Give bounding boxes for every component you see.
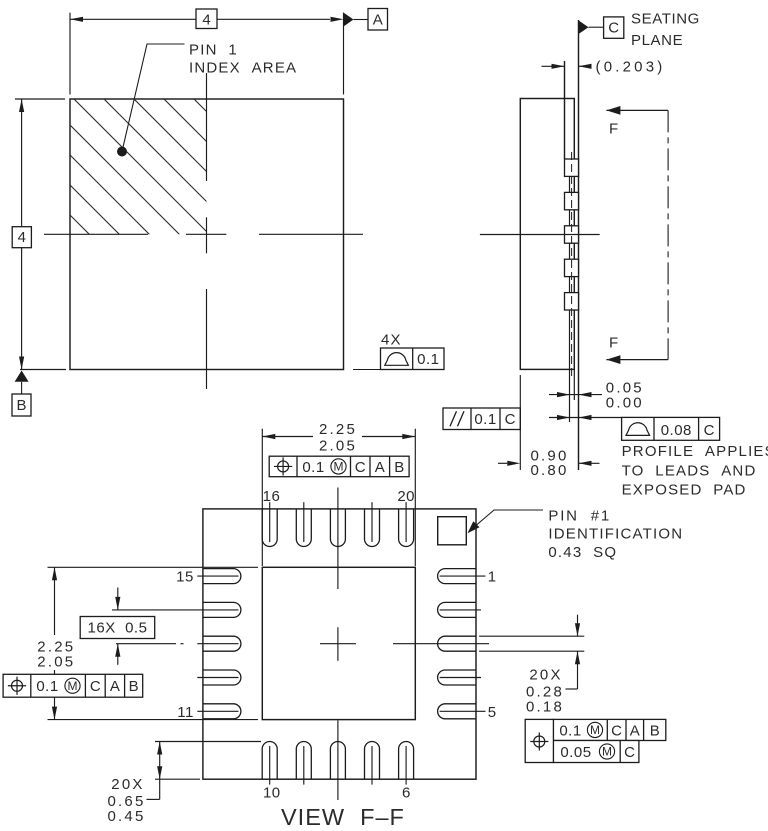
svg-text:C: C [608, 20, 619, 37]
svg-text:B: B [129, 678, 139, 695]
svg-text:20X: 20X [529, 666, 562, 683]
profile leader line [549, 417, 579, 419]
bottom view vertical centerline [337, 488, 339, 590]
side view lead centerline dashed [571, 152, 573, 376]
bottom row lead centerlines [269, 746, 271, 785]
svg-text:A: A [375, 459, 385, 476]
svg-text:PLANE: PLANE [631, 32, 683, 49]
svg-text:INDEX AREA: INDEX AREA [189, 60, 297, 77]
svg-text:0.43 SQ: 0.43 SQ [548, 544, 617, 561]
bottom row leads 6-10 [262, 742, 277, 780]
svg-text:0.80: 0.80 [531, 462, 569, 479]
datum C flag [579, 20, 589, 34]
svg-text:20: 20 [397, 488, 415, 505]
dimension 2.25/2.05 top line [262, 436, 313, 438]
svg-text:16: 16 [263, 488, 281, 505]
svg-text:VIEW F–F: VIEW F–F [281, 804, 405, 830]
svg-text:2.05: 2.05 [319, 438, 357, 455]
4X profile callout [353, 369, 381, 371]
svg-text:16X 0.5: 16X 0.5 [88, 619, 148, 636]
top row lead centerlines [269, 502, 271, 542]
top view horizontal centerline [44, 233, 148, 235]
svg-text:4: 4 [202, 11, 210, 28]
dimension 16X 0.5 box [80, 617, 155, 639]
side view lead face line left [564, 61, 566, 159]
svg-text:0.45: 0.45 [108, 808, 146, 825]
svg-text:C: C [611, 722, 622, 739]
svg-text:2.25: 2.25 [319, 421, 357, 438]
bottom view outer outline [203, 509, 476, 779]
svg-text:IDENTIFICATION: IDENTIFICATION [548, 526, 683, 543]
side view leads [565, 159, 579, 176]
svg-text:M: M [68, 679, 78, 693]
side view body edge below [573, 369, 575, 400]
svg-text:0.1: 0.1 [474, 411, 496, 428]
svg-text:B: B [650, 722, 660, 739]
svg-text:C: C [624, 744, 635, 761]
svg-text:M: M [334, 460, 344, 474]
svg-text:15: 15 [176, 569, 194, 586]
svg-text:B: B [16, 397, 26, 414]
bottom view exposed pad [262, 567, 415, 719]
dimension 16X 0.5 arrows [117, 588, 119, 610]
svg-text:C: C [505, 411, 516, 428]
svg-text:C: C [355, 459, 366, 476]
svg-text:0.1: 0.1 [559, 722, 581, 739]
position frame left [3, 674, 143, 697]
right column lead centerlines [440, 575, 486, 577]
svg-text:6: 6 [402, 785, 411, 802]
svg-text:10: 10 [263, 785, 281, 802]
section line F-F [667, 110, 669, 359]
svg-text:0.08: 0.08 [661, 422, 692, 439]
side view inner lead line [569, 176, 571, 422]
dimension 20X 0.65/0.45 extension lines [155, 741, 261, 743]
side view body [520, 99, 574, 370]
svg-text:(0.203): (0.203) [596, 59, 666, 76]
side view seating plane line [578, 20, 580, 470]
svg-text:4: 4 [18, 229, 26, 246]
dimension 4 vertical line [21, 99, 23, 226]
svg-text:20X: 20X [111, 776, 144, 793]
svg-text:0.05: 0.05 [560, 744, 591, 761]
composite position frame bottom right [553, 719, 665, 740]
svg-text:F: F [609, 335, 619, 352]
pin 1 leader [122, 44, 185, 152]
svg-text:SEATING: SEATING [631, 11, 700, 28]
profile frame 0.08 C [622, 417, 720, 440]
svg-text:4X: 4X [381, 332, 402, 349]
svg-text:5: 5 [488, 704, 497, 721]
svg-text:0.1: 0.1 [417, 351, 439, 368]
top row leads 16-20 [262, 509, 277, 547]
pin 1 identification leader [470, 510, 544, 531]
svg-text:0.00: 0.00 [606, 395, 644, 412]
svg-text:0.1: 0.1 [36, 678, 58, 695]
dimension 20X 0.65/0.45 leader [159, 779, 161, 799]
svg-text:PIN 1: PIN 1 [189, 42, 238, 59]
svg-text:A: A [373, 11, 383, 28]
dimension 0.90/0.80 [498, 462, 507, 464]
left column lead centerlines [197, 575, 238, 577]
dimension 2.25/2.05 left extension lines [48, 566, 259, 568]
svg-text:A: A [110, 678, 120, 695]
side view horizontal centerline [480, 234, 600, 236]
svg-text:M: M [590, 723, 600, 737]
svg-text:0.18: 0.18 [526, 699, 564, 716]
svg-text:A: A [630, 722, 640, 739]
parallelism frame 0.1 C [443, 408, 520, 430]
body edge extension line [519, 375, 521, 470]
dimension (0.203) [542, 65, 565, 67]
svg-text:0.1: 0.1 [302, 459, 324, 476]
section arrow F top [606, 109, 668, 111]
dimension 20X 0.28/0.18 extension lines [479, 635, 584, 637]
svg-text:EXPOSED PAD: EXPOSED PAD [622, 481, 747, 498]
dimension 4 vertical value box [12, 227, 31, 248]
bottom view horizontal centerline [116, 643, 176, 645]
right column leads 1-5 [438, 569, 476, 584]
datum B flag [15, 371, 29, 382]
svg-text:2.05: 2.05 [37, 653, 75, 670]
top view package outline [70, 99, 344, 370]
dimension 20X 0.28/0.18 arrows [577, 615, 579, 637]
dimension 4 horizontal value box [196, 9, 217, 29]
dimension 0.05/0.00 [549, 394, 579, 396]
svg-text:1: 1 [488, 569, 497, 586]
svg-text:11: 11 [177, 704, 194, 721]
pin 1 identification square [438, 517, 467, 545]
dimension 4 vertical extension lines [15, 98, 65, 100]
svg-text:F: F [609, 121, 619, 138]
svg-text:TO LEADS AND: TO LEADS AND [622, 462, 757, 479]
dimension 4 horizontal line [70, 18, 196, 20]
section arrow F bottom [606, 359, 668, 361]
svg-text:C: C [90, 678, 101, 695]
svg-text:PROFILE APPLIES: PROFILE APPLIES [622, 443, 768, 460]
left column leads 11-15 [203, 569, 241, 584]
dimension 4 horizontal extension lines [69, 13, 71, 95]
dimension 20X 0.65/0.45 line [159, 742, 161, 780]
datum A flag [344, 13, 354, 27]
pin 1 index area hatch [60, 0, 350, 495]
svg-text:C: C [704, 422, 715, 439]
position frame top [269, 456, 409, 477]
svg-text:B: B [394, 459, 404, 476]
dimension 2.25/2.05 left line [54, 567, 56, 635]
pin 1 index dot [117, 147, 127, 157]
svg-text:PIN #1: PIN #1 [548, 507, 611, 524]
svg-text:M: M [602, 745, 612, 759]
dimension 2.25/2.05 top extension lines [261, 429, 263, 566]
top view vertical centerline [206, 73, 208, 181]
